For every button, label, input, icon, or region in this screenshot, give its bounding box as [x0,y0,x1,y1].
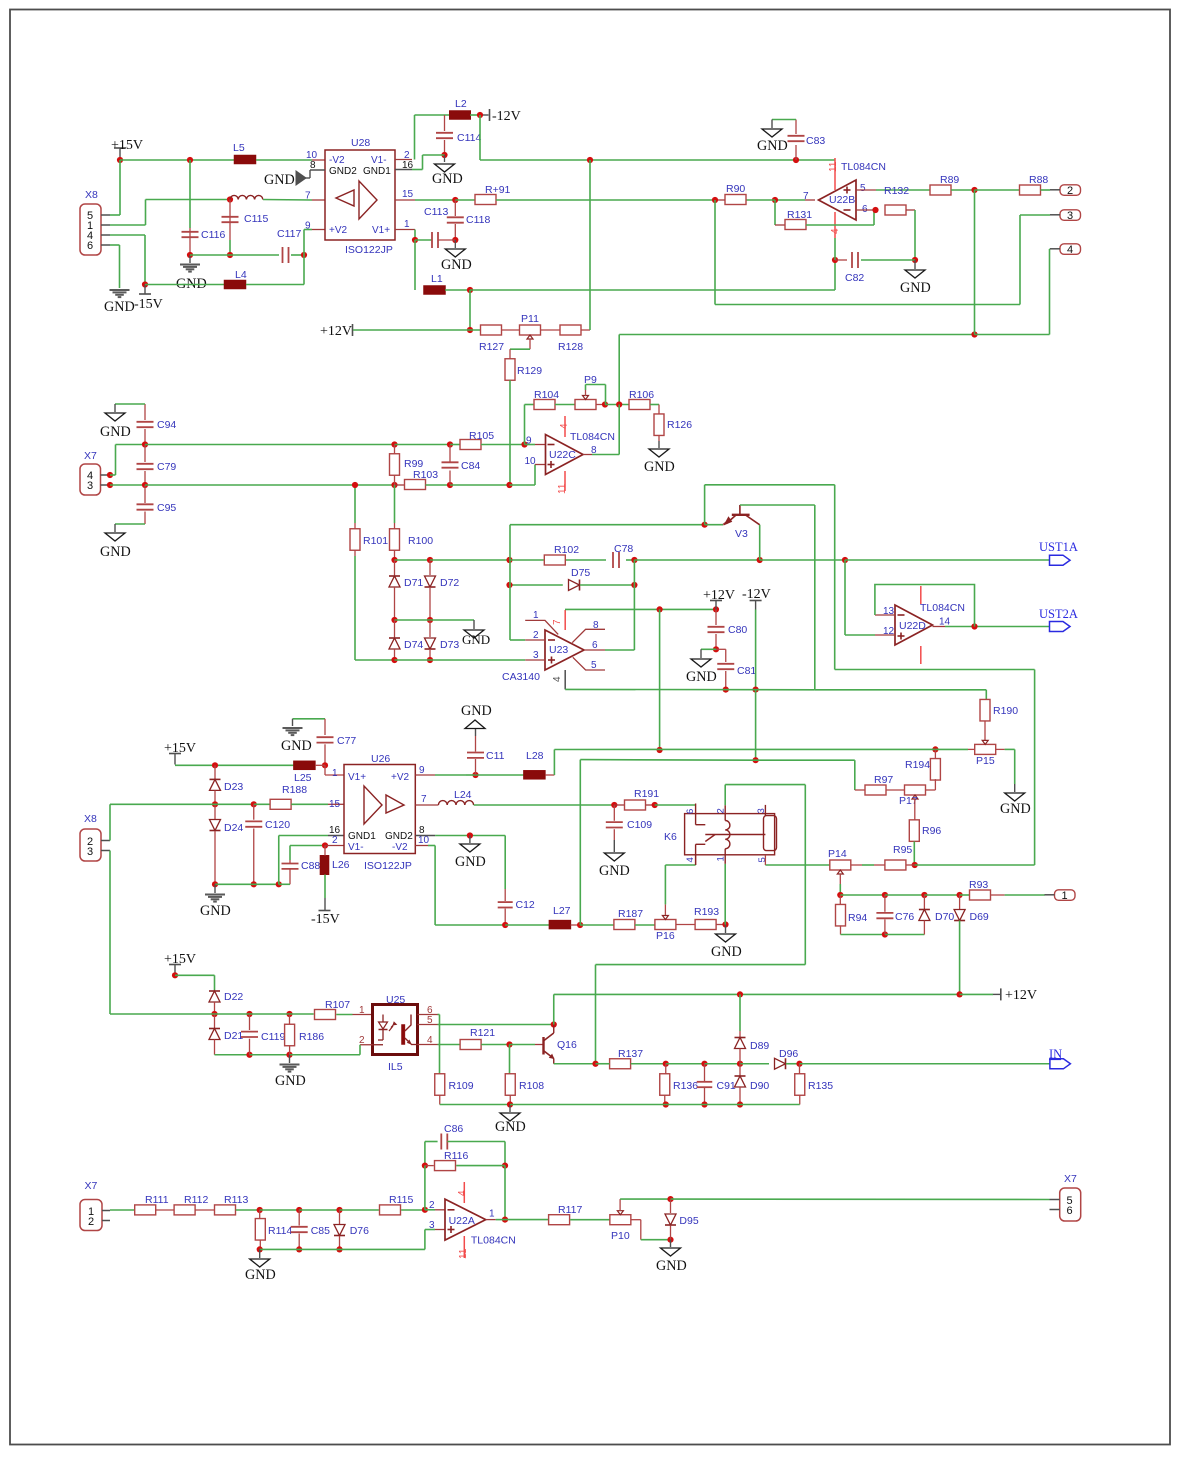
svg-text:C113: C113 [424,206,448,218]
svg-text:4: 4 [1067,244,1073,256]
svg-text:-15V: -15V [311,912,340,927]
svg-text:R187: R187 [618,908,643,920]
svg-text:GND: GND [264,172,295,188]
svg-text:U22B: U22B [829,194,855,206]
svg-text:3: 3 [1067,210,1073,222]
svg-text:15: 15 [329,799,341,810]
svg-text:2: 2 [429,1200,435,1211]
svg-text:GND: GND [757,138,788,154]
svg-text:K6: K6 [664,831,677,843]
svg-text:U25: U25 [386,994,405,1006]
svg-text:D76: D76 [350,1225,369,1237]
svg-text:R113: R113 [224,1194,248,1206]
svg-text:11: 11 [557,483,568,494]
svg-text:Q16: Q16 [557,1039,577,1051]
svg-text:U22D: U22D [899,620,926,632]
svg-text:X8: X8 [85,189,98,201]
svg-text:R102: R102 [554,544,579,556]
svg-text:GND: GND [100,544,131,560]
svg-text:9: 9 [305,221,311,232]
svg-text:-12V: -12V [492,109,521,124]
svg-text:R186: R186 [299,1031,324,1043]
svg-text:+12V: +12V [1005,988,1037,1003]
svg-text:C120: C120 [265,819,290,831]
svg-text:C76: C76 [895,911,914,923]
svg-text:TL084CN: TL084CN [570,431,615,443]
svg-text:V1+: V1+ [372,225,390,236]
svg-text:GND1: GND1 [363,166,391,177]
svg-text:GND: GND [461,703,492,719]
svg-text:R106: R106 [629,389,654,401]
svg-text:4: 4 [457,1190,468,1196]
svg-text:R190: R190 [993,705,1018,717]
svg-text:GND: GND [495,1119,526,1135]
svg-text:IL5: IL5 [388,1061,403,1073]
svg-text:P15: P15 [976,755,995,767]
svg-text:11: 11 [458,1248,469,1259]
svg-text:R104: R104 [534,389,559,401]
svg-text:5: 5 [860,183,866,194]
svg-text:2: 2 [332,835,338,846]
svg-text:D23: D23 [224,781,243,793]
svg-text:C83: C83 [806,135,825,147]
svg-text:L1: L1 [431,273,443,285]
svg-text:R136: R136 [673,1080,698,1092]
svg-text:GND2: GND2 [329,166,357,177]
svg-text:L4: L4 [235,269,247,281]
svg-text:1: 1 [1062,890,1068,902]
svg-text:R188: R188 [282,784,307,796]
svg-text:C114: C114 [457,132,481,144]
svg-text:R121: R121 [470,1027,495,1039]
svg-text:R90: R90 [726,183,745,195]
svg-text:1: 1 [404,219,410,230]
svg-text:UST2A: UST2A [1039,607,1078,621]
svg-text:U26: U26 [371,753,390,765]
svg-text:GND: GND [455,854,486,870]
svg-text:GND: GND [441,257,472,273]
svg-text:R137: R137 [618,1048,643,1060]
svg-text:C81: C81 [737,665,756,677]
svg-text:C118: C118 [466,214,490,226]
svg-text:C80: C80 [728,624,747,636]
svg-text:C11: C11 [486,750,505,762]
svg-text:15: 15 [402,189,414,200]
svg-text:-V2: -V2 [392,842,408,853]
svg-text:R108: R108 [519,1080,544,1092]
svg-text:3: 3 [429,1220,435,1231]
svg-text:X7: X7 [84,450,97,462]
svg-text:4: 4 [685,857,696,862]
svg-text:R194: R194 [905,759,930,771]
svg-text:D22: D22 [224,991,243,1003]
svg-text:C117: C117 [277,228,301,240]
svg-text:R135: R135 [808,1080,833,1092]
svg-text:GND2: GND2 [385,831,413,842]
svg-text:ISO122JP: ISO122JP [345,244,393,256]
svg-text:R129: R129 [517,365,542,377]
svg-text:D21: D21 [224,1030,243,1042]
svg-text:+V2: +V2 [329,225,348,236]
svg-text:D95: D95 [679,1215,698,1227]
svg-text:6: 6 [87,240,93,252]
svg-text:R191: R191 [634,788,659,800]
svg-text:C82: C82 [845,272,864,284]
svg-text:D90: D90 [750,1080,769,1092]
svg-text:X8: X8 [84,813,97,825]
svg-text:+V2: +V2 [391,772,410,783]
svg-text:L2: L2 [455,98,467,110]
svg-text:V1-: V1- [348,842,364,853]
svg-text:GND: GND [900,280,931,296]
svg-text:1: 1 [332,768,338,779]
svg-text:L5: L5 [233,142,245,154]
svg-text:UST1A: UST1A [1039,540,1078,554]
svg-text:R132: R132 [884,185,909,197]
svg-text:R111: R111 [145,1194,169,1206]
svg-text:7: 7 [421,794,427,805]
svg-text:GND: GND [686,669,717,685]
svg-text:C91: C91 [717,1080,736,1092]
svg-text:GND: GND [104,299,135,315]
svg-text:GND: GND [281,738,312,754]
svg-text:D71: D71 [404,577,423,589]
svg-text:V1+: V1+ [348,772,366,783]
svg-text:D72: D72 [440,577,459,589]
svg-text:C78: C78 [614,543,633,555]
svg-text:C88: C88 [301,860,320,872]
svg-text:L24: L24 [454,789,472,801]
svg-text:TL084CN: TL084CN [471,1235,516,1247]
svg-text:C119: C119 [261,1031,285,1043]
svg-text:6: 6 [1067,1205,1073,1217]
svg-text:R117: R117 [558,1204,582,1216]
svg-text:L28: L28 [526,750,544,762]
svg-text:GND: GND [275,1073,306,1089]
svg-text:GND1: GND1 [348,831,376,842]
svg-text:C86: C86 [444,1123,463,1135]
svg-text:3: 3 [87,846,93,858]
svg-text:7: 7 [305,191,311,202]
svg-text:R+91: R+91 [485,184,511,196]
svg-text:9: 9 [526,436,532,447]
svg-text:P10: P10 [611,1230,630,1242]
svg-text:R109: R109 [449,1080,474,1092]
svg-text:D74: D74 [404,639,423,651]
svg-text:-V2: -V2 [329,155,345,166]
svg-text:R101: R101 [363,535,388,547]
svg-text:GND: GND [1000,801,1031,817]
svg-text:R99: R99 [404,458,423,470]
svg-text:CA3140: CA3140 [502,671,540,683]
svg-text:R114: R114 [268,1225,292,1237]
svg-text:GND: GND [432,171,463,187]
svg-text:D96: D96 [779,1048,798,1060]
svg-text:R93: R93 [969,879,988,891]
svg-text:C94: C94 [157,419,176,431]
svg-text:+15V: +15V [111,138,143,153]
svg-text:+15V: +15V [164,741,196,756]
svg-text:C12: C12 [516,899,535,911]
svg-text:+12V: +12V [320,324,352,339]
svg-text:V1-: V1- [371,155,387,166]
svg-text:1: 1 [359,1005,365,1016]
svg-text:P14: P14 [828,848,847,860]
svg-text:TL084CN: TL084CN [841,161,886,173]
svg-text:L26: L26 [332,859,350,871]
svg-text:D73: D73 [440,639,459,651]
svg-text:GND: GND [100,424,131,440]
svg-text:-15V: -15V [134,297,163,312]
svg-text:R116: R116 [444,1150,468,1162]
svg-text:11: 11 [828,161,839,172]
svg-text:L27: L27 [553,905,571,917]
svg-text:GND: GND [644,459,675,475]
svg-text:ISO122JP: ISO122JP [364,860,412,872]
svg-text:R88: R88 [1029,174,1048,186]
svg-text:GND: GND [656,1258,687,1274]
svg-text:GND: GND [599,863,630,879]
svg-text:U23: U23 [549,644,568,656]
svg-text:10: 10 [525,456,537,467]
svg-text:C85: C85 [311,1225,330,1237]
svg-text:6: 6 [685,809,696,814]
svg-text:GND: GND [200,903,231,919]
svg-text:V3: V3 [735,528,748,540]
svg-text:R95: R95 [893,844,912,856]
svg-text:C84: C84 [461,460,480,472]
svg-text:R97: R97 [874,774,893,786]
svg-text:R127: R127 [479,341,504,353]
svg-text:C115: C115 [244,213,268,225]
svg-text:X7: X7 [85,1180,98,1192]
svg-text:2: 2 [1067,185,1073,197]
svg-text:4: 4 [552,676,563,682]
svg-text:C109: C109 [627,819,652,831]
svg-text:1: 1 [533,610,539,621]
svg-text:C95: C95 [157,502,176,514]
svg-text:U22C: U22C [549,449,576,461]
svg-text:R112: R112 [184,1194,208,1206]
svg-text:R131: R131 [787,209,812,221]
svg-text:R103: R103 [413,469,438,481]
svg-text:R128: R128 [558,341,583,353]
svg-text:R89: R89 [940,174,959,186]
svg-text:R96: R96 [922,825,941,837]
svg-text:C116: C116 [201,229,225,241]
svg-text:D70: D70 [935,911,954,923]
svg-text:U22A: U22A [449,1215,475,1227]
svg-text:-12V: -12V [742,587,771,602]
svg-text:D24: D24 [224,822,243,834]
svg-text:R126: R126 [667,419,692,431]
svg-text:10: 10 [418,835,430,846]
svg-text:P11: P11 [521,313,539,325]
svg-text:L25: L25 [294,772,312,784]
svg-text:U28: U28 [351,137,370,149]
svg-text:GND: GND [711,944,742,960]
svg-text:D69: D69 [970,911,989,923]
svg-text:R115: R115 [389,1194,413,1206]
svg-text:R193: R193 [694,906,719,918]
svg-text:GND: GND [462,632,490,647]
svg-text:3: 3 [87,480,93,492]
svg-text:+12V: +12V [703,588,735,603]
svg-text:2: 2 [88,1216,94,1228]
svg-text:5: 5 [757,857,768,862]
svg-text:1: 1 [489,1209,495,1220]
svg-text:R107: R107 [325,999,350,1011]
svg-text:C77: C77 [337,735,356,747]
svg-text:C79: C79 [157,461,176,473]
svg-text:+15V: +15V [164,952,196,967]
svg-text:R100: R100 [408,535,433,547]
svg-text:D75: D75 [571,567,590,579]
svg-text:GND: GND [245,1267,276,1283]
svg-text:TL084CN: TL084CN [920,602,965,614]
svg-text:X7: X7 [1064,1173,1077,1185]
svg-text:D89: D89 [750,1040,769,1052]
svg-text:7: 7 [552,619,563,625]
svg-text:R105: R105 [469,430,494,442]
svg-text:R94: R94 [848,912,867,924]
svg-text:P16: P16 [656,930,675,942]
